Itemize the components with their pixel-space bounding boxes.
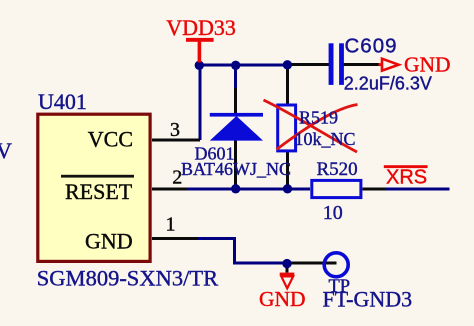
svg-text:2.2uF/6.3V: 2.2uF/6.3V [344,74,432,94]
svg-text:SGM809-SXN3/TR: SGM809-SXN3/TR [37,266,218,291]
svg-text:R519: R519 [299,108,338,128]
svg-text:XRS: XRS [386,167,427,189]
svg-text:10k_NC: 10k_NC [295,129,356,149]
svg-text:VDD33: VDD33 [166,15,236,40]
svg-text:FT-GND3: FT-GND3 [323,287,413,312]
svg-text:GND: GND [259,287,306,311]
svg-text:V: V [0,138,12,163]
svg-text:VCC: VCC [88,127,133,152]
svg-text:C609: C609 [345,35,398,58]
svg-text:BAT46WJ_NC: BAT46WJ_NC [181,159,291,179]
svg-text:U401: U401 [38,89,87,114]
svg-text:3: 3 [170,119,180,141]
svg-text:R520: R520 [317,159,358,180]
svg-text:10: 10 [323,202,343,224]
svg-text:RESET: RESET [65,179,133,204]
svg-text:1: 1 [166,214,176,236]
svg-text:GND: GND [85,229,133,254]
